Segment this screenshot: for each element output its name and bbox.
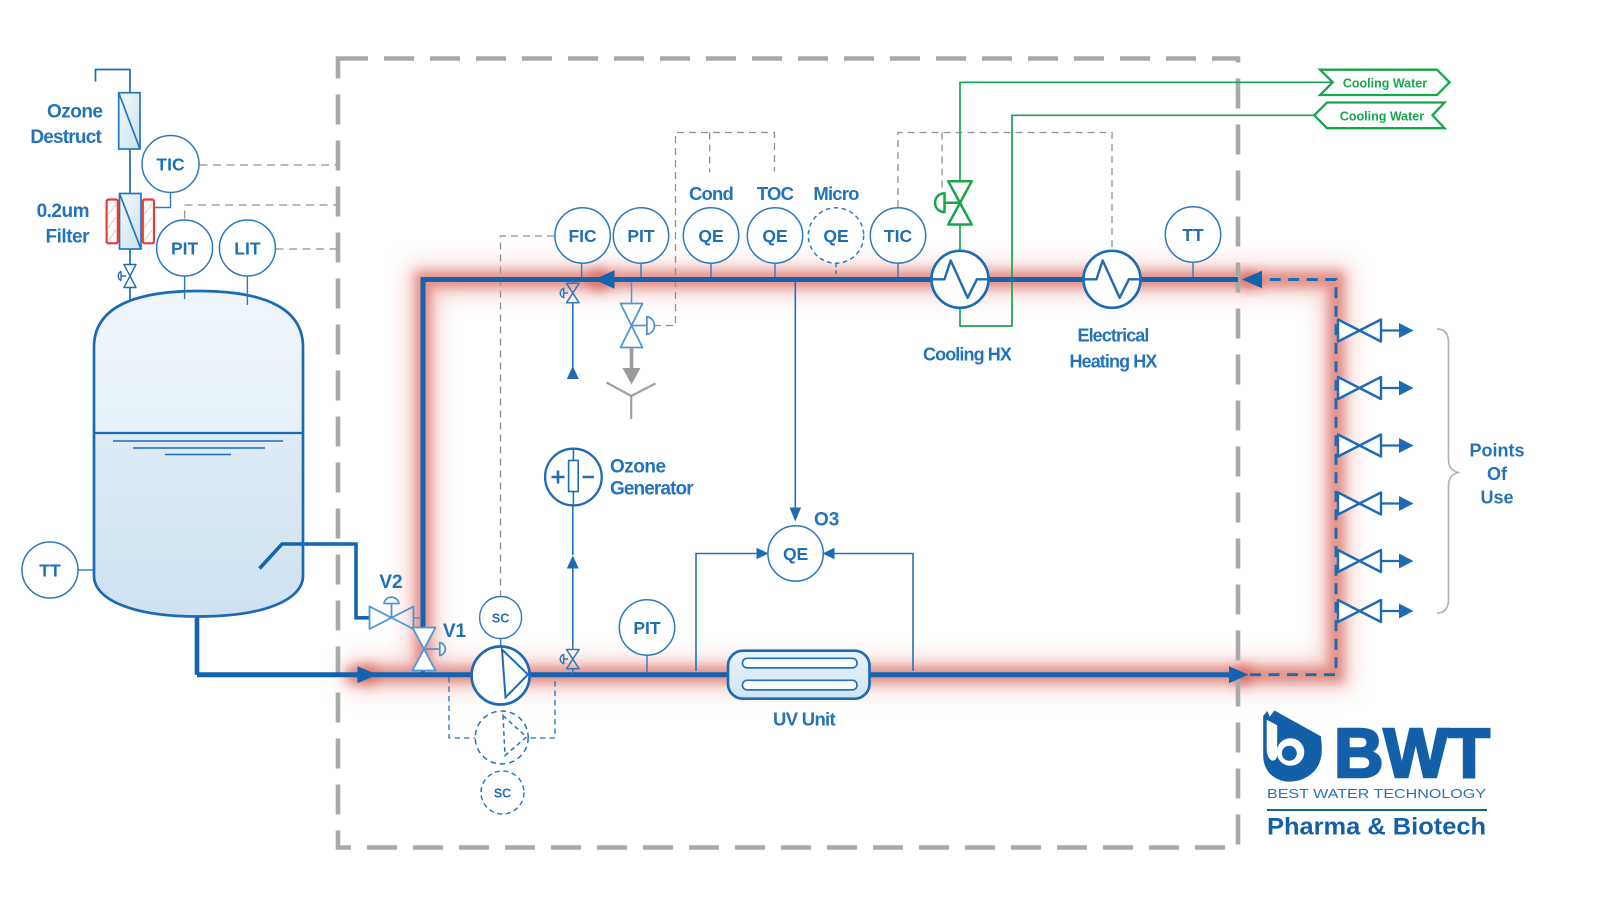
red sanitary loop glow core layer (345, 280, 1336, 675)
tank vent valve (118, 265, 136, 288)
ozone generator O1 (545, 449, 602, 506)
cooling heat exchanger (932, 251, 989, 308)
valve V1 (413, 628, 446, 671)
riser stub through V1 to suction pipe (421, 668, 425, 675)
electrical heating heat exchanger (1084, 251, 1141, 308)
standby pump dashed enclosure (449, 677, 555, 738)
svg-text:Cooling Water: Cooling Water (1343, 77, 1427, 91)
instrument TT (loop) (1165, 207, 1220, 277)
svg-text:TOC: TOC (757, 183, 794, 204)
cooling water tag banner 2 (1314, 103, 1444, 129)
tank outlet down pipe (195, 614, 200, 675)
POU valve 2 (1338, 377, 1399, 399)
ozone line upper check valve (560, 280, 579, 308)
pipe valve to tank dome (129, 288, 131, 313)
svg-text:0.2um: 0.2um (37, 201, 89, 222)
svg-text:Destruct: Destruct (30, 127, 102, 148)
signal line FIC to pump speed control (501, 236, 555, 596)
svg-text:BWT: BWT (1334, 714, 1490, 792)
POU valve 3 (1338, 435, 1399, 457)
drain arrow gray (630, 348, 634, 370)
flow arrow up (upper) (567, 366, 579, 379)
svg-text:Use: Use (1480, 488, 1513, 508)
points of use brace (1437, 329, 1458, 613)
POU valve 5 (1338, 550, 1399, 572)
instrument QE conductivity (683, 208, 738, 277)
flow arrow up (lower) (567, 556, 579, 569)
red glow blob at tank feed arrow (355, 664, 377, 686)
cooling water return green line (960, 115, 1315, 326)
svg-text:Micro: Micro (813, 183, 859, 204)
flow arrow after tank outlet (358, 666, 378, 683)
standby pump SC dashed (481, 771, 524, 814)
ozone destruct filter body (119, 93, 140, 149)
valve V2 (370, 597, 414, 629)
svg-text:BEST WATER TECHNOLOGY: BEST WATER TECHNOLOGY (1267, 786, 1486, 801)
svg-text:Cooling HX: Cooling HX (923, 345, 1012, 365)
UV unit body (728, 651, 870, 699)
svg-text:Pharma & Biotech: Pharma & Biotech (1267, 814, 1486, 841)
tank water ripples (113, 441, 283, 455)
instrument PIT (tank) (157, 220, 213, 299)
tank water level line (95, 432, 303, 434)
ozone line (pump to top) (572, 568, 574, 644)
red glow blob at loop exit arrow (1232, 664, 1254, 686)
ozone line upper segment (572, 304, 574, 379)
drain funnel symbol (607, 383, 656, 420)
svg-text:Of: Of (1487, 464, 1508, 484)
points-of-use dashed loop pipe (1250, 280, 1336, 675)
svg-text:QE: QE (762, 226, 787, 246)
svg-text:QE: QE (698, 226, 723, 246)
svg-text:Electrical: Electrical (1077, 326, 1148, 346)
POU valve 4 (1338, 493, 1399, 515)
signal line PIT to boundary (185, 205, 337, 219)
BWT logo mark (1263, 711, 1322, 782)
instrument PIT (loop) (613, 208, 668, 277)
svg-text:SC: SC (492, 612, 509, 626)
svg-text:TIC: TIC (156, 155, 185, 175)
ozone line lower check valve (560, 644, 579, 675)
wire V2 to riser (414, 617, 422, 619)
POU valve 6 (1338, 600, 1399, 622)
QE sample line upstream of UV (696, 554, 757, 672)
storage tank (94, 291, 303, 617)
ozone sensor feed line and arrow (794, 282, 796, 508)
cooling water control valve (935, 181, 972, 224)
svg-text:PIT: PIT (627, 226, 655, 246)
red sanitary loop glow wide layer (345, 280, 1336, 675)
svg-text:Ozone: Ozone (610, 457, 666, 478)
flow arrow at loop exit (1229, 666, 1249, 683)
main bottom loop pipe (197, 672, 1234, 677)
instrument PIT (pump discharge) (619, 600, 674, 672)
QE sample line downstream of UV (835, 554, 914, 672)
svg-text:SC: SC (494, 787, 511, 801)
loop boundary dashed gray box (338, 59, 1238, 848)
flow arrow on top pipe (594, 270, 615, 288)
svg-text:QE: QE (783, 544, 808, 564)
pump speed control SC (480, 597, 522, 647)
signal line TIC to boundary (200, 164, 338, 166)
svg-text:Filter: Filter (46, 227, 91, 248)
main top return pipe (423, 280, 1238, 629)
svg-text:Points: Points (1469, 441, 1524, 461)
instrument QE TOC (747, 208, 802, 277)
instrument FIC (555, 208, 610, 277)
signal line LIT to boundary (276, 248, 338, 250)
svg-text:LIT: LIT (234, 239, 261, 259)
svg-text:Cond: Cond (689, 183, 734, 204)
cooling water supply green line (960, 82, 1333, 251)
svg-text:Ozone: Ozone (47, 102, 103, 123)
svg-text:Generator: Generator (610, 479, 694, 500)
svg-text:O3: O3 (814, 510, 839, 531)
ozone destruct vent bracket (96, 70, 131, 93)
svg-text:PIT: PIT (171, 239, 199, 259)
red glow blob at loop return arrow (1240, 270, 1260, 290)
svg-text:V1: V1 (443, 621, 467, 642)
svg-text:UV Unit: UV Unit (773, 709, 835, 730)
tank internal dip tube (260, 544, 303, 569)
instrument TT (tank) (22, 542, 94, 598)
loop return arrow at top (1242, 271, 1262, 289)
svg-text:Heating HX: Heating HX (1069, 352, 1157, 372)
sample drain valve below PIT (621, 282, 655, 348)
pipe filter to vent valve (129, 249, 131, 265)
svg-text:QE: QE (823, 226, 848, 246)
POU valve 1 (1338, 320, 1399, 342)
svg-text:TIC: TIC (884, 226, 913, 246)
instrument TIC (tank) (142, 136, 199, 208)
svg-text:PIT: PIT (633, 618, 661, 638)
red glow blob at top-left arrow (587, 268, 611, 292)
svg-text:TT: TT (1182, 225, 1204, 245)
0.2um filter right red cartridge (143, 200, 154, 244)
signal line TIC2 to cooling valve and electrical heater (898, 133, 1112, 252)
instrument TIC (loop) (870, 208, 925, 277)
instrument QE micro (future, dashed) (808, 208, 863, 277)
standby pump dashed (475, 711, 528, 764)
svg-text:Cooling Water: Cooling Water (1340, 110, 1424, 124)
0.2um filter body (120, 194, 142, 250)
instrument LIT (tank) (219, 220, 275, 305)
svg-text:TT: TT (39, 561, 61, 581)
tank return line to dip tube (260, 544, 370, 618)
svg-text:V2: V2 (379, 572, 402, 593)
instrument QE O3 (768, 526, 823, 581)
svg-text:FIC: FIC (568, 226, 597, 246)
0.2um filter left red cartridge (107, 200, 118, 244)
pump P1 (472, 647, 530, 705)
cooling water tag banner 1 (1320, 70, 1450, 95)
pipe between filters (129, 149, 131, 194)
logo divider line (1267, 809, 1487, 811)
signal lines sample-valve / Cond / TOC dashed frame (654, 133, 775, 326)
